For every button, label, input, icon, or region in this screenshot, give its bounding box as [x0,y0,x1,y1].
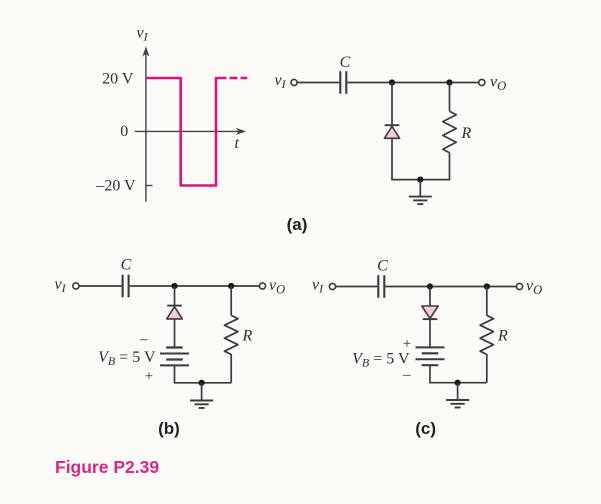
svg-text:–20 V: –20 V [95,178,136,195]
resistor R (b) [225,315,238,354]
wire junction to diode (c) [429,287,431,307]
svg-text:C: C [340,54,351,71]
svg-text:(b): (b) [158,419,180,438]
battery plus sign (c) [403,336,411,352]
input terminal (c) [329,283,335,289]
axis label t [235,135,240,152]
figure caption Figure P2.39 [55,457,159,477]
y-axis value 20 V [102,70,134,87]
svg-text:+: + [403,336,411,352]
svg-text:VB = 5 V: VB = 5 V [352,351,410,370]
wire capacitor to vO terminal (c) [385,286,516,288]
node dot ground junction (c) [455,380,461,386]
terminal label vI (b) [55,276,67,295]
caption (b) [158,419,180,438]
ground (a) [409,180,432,205]
-20V tick [146,185,153,187]
label R (a) [461,125,472,142]
wire junction to resistor (a) [449,83,451,112]
label VB = 5 V (b) [98,349,156,368]
node dot junction resistor (a) [446,79,452,85]
wire resistor to bottom (a) [449,153,451,180]
wire battery to bottom (b) [175,365,232,382]
label VB = 5 V (c) [352,351,410,370]
svg-text:R: R [497,328,508,345]
node dot junction diode (b) [171,283,177,289]
terminal label vO (a) [490,74,506,94]
input terminal (a) [291,79,297,85]
diode D (b) [167,306,183,319]
wire diode to battery (c) [429,319,431,347]
svg-text:20 V: 20 V [102,70,134,87]
svg-text:(a): (a) [287,215,308,234]
input terminal (b) [73,283,79,289]
waveform y-axis [142,46,149,202]
svg-text:0: 0 [120,123,128,140]
capacitor C (c) [378,275,384,298]
battery minus sign (c) [402,367,411,383]
battery plus sign (b) [145,368,153,384]
wire junction to resistor (c) [486,287,488,316]
ground (c) [446,383,469,408]
resistor R (c) [480,315,493,354]
wire battery to bottom (c) [430,365,487,383]
terminal label vI (c) [312,277,324,296]
y-axis value -20 V [95,178,136,195]
svg-text:+: + [145,368,153,384]
node dot ground junction (a) [417,177,423,183]
label R (b) [242,328,253,345]
svg-text:C: C [121,257,132,274]
label C (c) [377,258,388,275]
node dot junction diode (c) [427,283,433,289]
wire capacitor to vO terminal (a) [347,82,478,84]
svg-text:C: C [377,258,388,275]
terminal label vO (b) [269,277,285,297]
wire diode to bottom (a) [391,138,393,179]
battery VB (c) [416,347,445,365]
svg-text:(c): (c) [415,419,436,438]
waveform x-axis [135,128,246,135]
label C (b) [121,257,132,274]
diode D (c) [422,306,438,319]
wire junction to diode (b) [174,286,176,306]
wire capacitor to vO terminal (b) [130,285,260,287]
caption (c) [415,419,436,438]
capacitor C (a) [340,71,346,94]
terminal label vI (a) [275,72,287,91]
wire diode to battery (b) [174,319,176,348]
battery VB (b) [160,348,189,366]
battery minus sign (b) [139,332,148,348]
wire input to capacitor (a) [297,82,339,84]
node dot junction resistor (b) [228,283,234,289]
output terminal (b) [259,283,265,289]
capacitor C (b) [123,275,129,298]
wire input to capacitor (b) [79,285,121,287]
bottom wire (a) [391,179,450,181]
node dot junction diode (a) [389,79,395,85]
wire input to capacitor (c) [336,286,377,288]
output terminal (a) [479,79,485,85]
wire resistor to bottom (b) [230,354,232,383]
label C (a) [340,54,351,71]
ground (b) [190,383,213,408]
resistor R (a) [443,111,456,152]
svg-text:t: t [235,135,240,152]
wire junction to diode (a) [391,83,393,126]
svg-text:–: – [139,332,148,348]
axis label vI [137,25,149,44]
node dot ground junction (b) [199,380,205,386]
label R (c) [497,328,508,345]
svg-text:VB = 5 V: VB = 5 V [98,349,156,368]
svg-text:–: – [402,367,411,383]
wire junction to resistor (b) [230,286,232,315]
wire resistor to bottom (c) [486,354,488,383]
node dot junction resistor (c) [484,283,490,289]
caption (a) [287,215,308,234]
svg-text:Figure P2.39: Figure P2.39 [55,457,159,477]
svg-text:R: R [461,125,472,142]
square wave vI(t) [146,78,247,186]
output terminal (c) [516,283,522,289]
y-axis value 0 [120,123,128,140]
svg-text:R: R [242,328,253,345]
diode D (a) [384,125,399,138]
terminal label vO (c) [526,278,542,298]
